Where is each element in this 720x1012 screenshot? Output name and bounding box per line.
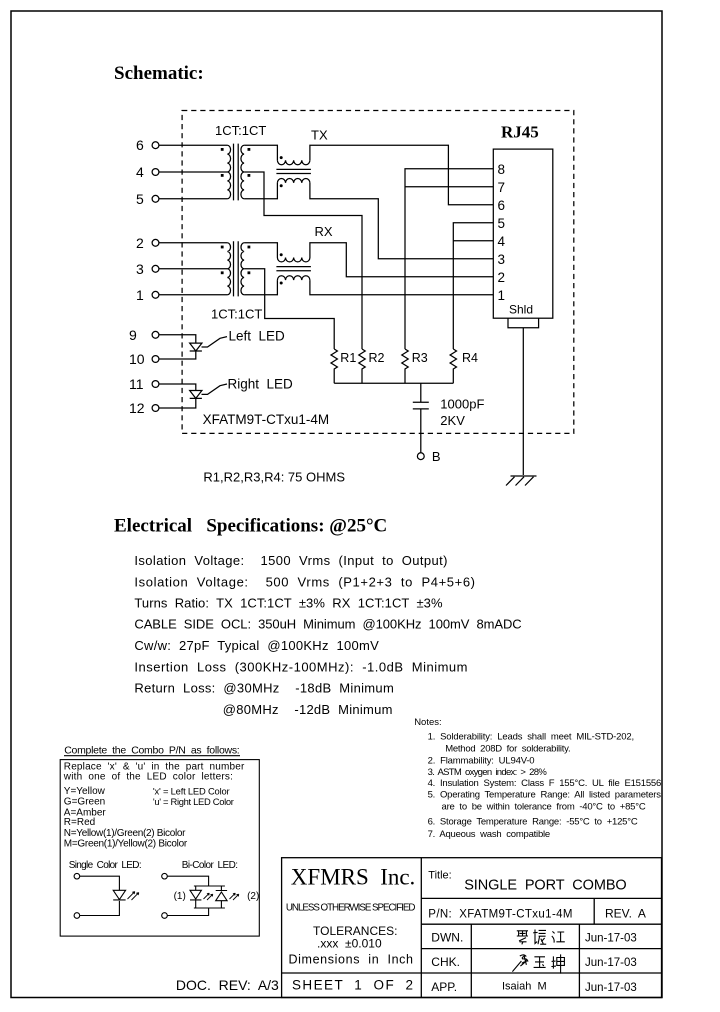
svg-text:Single Color LED:: Single Color LED: bbox=[69, 860, 142, 871]
svg-text:6: 6 bbox=[136, 137, 144, 153]
svg-text:RX: RX bbox=[315, 224, 333, 239]
wire T2 secondary top to RX choke bbox=[244, 243, 277, 258]
svg-text:Cw/w: 27pF Typical @100KHz: Cw/w: 27pF Typical @100KHz 100mV bbox=[134, 638, 379, 653]
TX choke lower phase dot bbox=[280, 184, 283, 187]
T2 secondary phase dot bbox=[248, 246, 251, 249]
svg-text:4: 4 bbox=[498, 234, 506, 249]
LED right diode bbox=[159, 384, 202, 408]
wire pin2 to T2 primary top bbox=[159, 242, 227, 244]
svg-text:7. Aqueous wash compatible: 7. Aqueous wash compatible bbox=[428, 829, 551, 840]
svg-text:Complete the Combo P/N as: Complete the Combo P/N as follows: bbox=[64, 745, 240, 757]
svg-text:5: 5 bbox=[136, 191, 144, 207]
svg-text:R2: R2 bbox=[369, 351, 385, 365]
wire shield to ground bbox=[522, 328, 524, 475]
svg-text:1: 1 bbox=[136, 287, 144, 303]
svg-text:.xxx ±0.010: .xxx ±0.010 bbox=[317, 937, 382, 951]
svg-text:Dimensions in Inch: Dimensions in Inch bbox=[289, 953, 414, 967]
pin 6 terminal bbox=[152, 142, 159, 149]
bi LED terminal top bbox=[162, 873, 168, 879]
LED right leader line bbox=[202, 384, 228, 394]
chk signature chinese bbox=[512, 954, 564, 973]
svg-text:RJ45: RJ45 bbox=[501, 123, 539, 142]
svg-text:CABLE SIDE OCL: 350uH Mini: CABLE SIDE OCL: 350uH Minimum @100KHz 10… bbox=[134, 617, 521, 632]
wire pin3 to T2 primary tap bbox=[159, 268, 227, 270]
dwn signature chinese bbox=[517, 930, 565, 945]
svg-text:4. Insulation System: Class: 4. Insulation System: Class F 155°C. UL … bbox=[428, 778, 662, 789]
svg-text:N=Yellow(1)/Green(2) Bicolor: N=Yellow(1)/Green(2) Bicolor bbox=[64, 828, 186, 839]
svg-text:R1,R2,R3,R4: 75 OHMS: R1,R2,R3,R4: 75 OHMS bbox=[203, 470, 345, 485]
T2 primary tap phase dot bbox=[221, 271, 224, 274]
svg-text:2KV: 2KV bbox=[440, 413, 465, 428]
resistor R1 bbox=[331, 349, 337, 383]
pin 12 terminal bbox=[152, 405, 159, 412]
svg-text:R3: R3 bbox=[412, 351, 428, 365]
svg-text:@80MHz -12dB Minimum: @80MHz -12dB Minimum bbox=[223, 702, 393, 717]
single LED diode symbol bbox=[113, 890, 125, 900]
dashed module outline bbox=[182, 111, 574, 434]
T1 primary phase dot bbox=[221, 148, 224, 151]
T1 secondary tap phase dot bbox=[248, 174, 251, 177]
RX choke lower phase dot bbox=[280, 282, 283, 285]
title block main vertical divider bbox=[420, 858, 422, 998]
resistor R2 bbox=[359, 349, 365, 383]
svg-text:Bi-Color LED:: Bi-Color LED: bbox=[182, 860, 238, 871]
T1 secondary phase dot bbox=[248, 148, 251, 151]
svg-text:Schematic:: Schematic: bbox=[114, 63, 204, 84]
svg-text:R4: R4 bbox=[462, 351, 478, 365]
svg-text:Return Loss: @30MHz -18dB: Return Loss: @30MHz -18dB Minimum bbox=[134, 681, 393, 696]
title block label column divider bbox=[470, 924, 472, 997]
svg-text:3: 3 bbox=[136, 261, 144, 277]
svg-text:1. Solderability: Leads sha: 1. Solderability: Leads shall meet MIL-S… bbox=[428, 732, 635, 743]
title block date column divider bbox=[578, 924, 580, 997]
svg-text:Insertion Loss (300KHz-100MH: Insertion Loss (300KHz-100MHz): -1.0dB M… bbox=[134, 659, 467, 674]
transformer T1 primary winding bbox=[227, 145, 230, 199]
svg-text:3: 3 bbox=[498, 252, 506, 267]
svg-text:(1): (1) bbox=[174, 891, 186, 902]
svg-text:XFMRS Inc.: XFMRS Inc. bbox=[291, 865, 416, 890]
single LED wiring bbox=[80, 876, 120, 915]
pin 4 terminal bbox=[152, 169, 159, 176]
svg-text:Right LED: Right LED bbox=[228, 377, 294, 392]
svg-text:R=Red: R=Red bbox=[64, 817, 95, 828]
svg-text:2: 2 bbox=[498, 270, 506, 285]
wire T1 secondary top to TX choke bbox=[244, 145, 277, 160]
svg-text:9: 9 bbox=[129, 327, 137, 343]
bi LED1 light arrows bbox=[204, 893, 213, 900]
wire T2 secondary bottom to RX choke lower bbox=[244, 280, 277, 295]
TX choke upper phase dot bbox=[280, 156, 283, 159]
svg-text:Method 208D for solderabili: Method 208D for solderability. bbox=[445, 744, 570, 755]
svg-text:APP.: APP. bbox=[431, 980, 457, 994]
title block left column sheet row divider bbox=[282, 972, 422, 974]
LED left diode bbox=[159, 335, 202, 359]
wire TX choke upper out bbox=[310, 145, 493, 205]
svg-text:12: 12 bbox=[129, 400, 145, 416]
svg-text:SINGLE PORT COMBO: SINGLE PORT COMBO bbox=[464, 878, 627, 894]
svg-text:'u' = Right LED Color: 'u' = Right LED Color bbox=[153, 796, 234, 807]
pin 5 terminal bbox=[152, 195, 159, 202]
pin 1 terminal bbox=[152, 291, 159, 298]
svg-text:6: 6 bbox=[498, 198, 506, 213]
capacitor C1 1000pF bbox=[413, 383, 429, 453]
pin 9 terminal bbox=[152, 331, 159, 338]
pin 10 terminal bbox=[152, 356, 159, 363]
bi LED2 light arrows bbox=[230, 893, 239, 900]
RJ45 shield tab bbox=[508, 318, 539, 328]
svg-text:2: 2 bbox=[136, 235, 144, 251]
transformer T1 core bbox=[234, 144, 239, 201]
title block title row divider bbox=[421, 897, 661, 899]
svg-text:Electrical Specifications: @: Electrical Specifications: @25°C bbox=[114, 516, 387, 537]
svg-text:(2): (2) bbox=[247, 891, 259, 902]
RX choke upper phase dot bbox=[280, 253, 283, 256]
svg-text:DOC. REV: A/3: DOC. REV: A/3 bbox=[176, 977, 279, 993]
svg-text:8: 8 bbox=[498, 162, 506, 177]
svg-text:2. Flammability: UL94V-0: 2. Flammability: UL94V-0 bbox=[428, 756, 535, 767]
svg-text:10: 10 bbox=[129, 351, 145, 367]
svg-text:6. Storage Temperature Rang: 6. Storage Temperature Range: -55°C to +… bbox=[428, 817, 638, 828]
svg-text:are to be within tolerance: are to be within tolerance from -40°C to… bbox=[442, 802, 646, 813]
resistor R3 bbox=[402, 349, 408, 383]
svg-text:Notes:: Notes: bbox=[414, 717, 441, 728]
svg-text:R1: R1 bbox=[340, 351, 356, 365]
svg-text:REV. A: REV. A bbox=[605, 907, 646, 921]
wire resistor bus bbox=[334, 382, 453, 384]
wire pin4 to T1 primary tap bbox=[159, 171, 227, 173]
TX choke core bbox=[276, 169, 311, 173]
svg-text:Jun-17-03: Jun-17-03 bbox=[585, 957, 637, 969]
RX choke core bbox=[276, 267, 311, 271]
svg-text:1000pF: 1000pF bbox=[440, 397, 484, 412]
svg-text:CHK.: CHK. bbox=[431, 955, 460, 969]
wire RX choke lower out to RJ45 pin1 bbox=[310, 280, 493, 295]
wire pin5 to T1 primary bottom bbox=[159, 198, 227, 200]
T1 primary tap phase dot bbox=[221, 174, 224, 177]
pin 3 terminal bbox=[152, 265, 159, 272]
svg-text:1CT:1CT: 1CT:1CT bbox=[211, 307, 262, 322]
svg-text:3. ASTM oxygen index: > 2: 3. ASTM oxygen index: > 28% bbox=[428, 767, 548, 778]
title block pn row divider bbox=[421, 923, 661, 925]
title block rev cell divider bbox=[593, 898, 595, 924]
svg-text:G=Green: G=Green bbox=[64, 797, 105, 808]
bi LED terminal bottom bbox=[162, 913, 168, 919]
TEXTS placeholder bbox=[282, 858, 662, 998]
svg-text:11: 11 bbox=[129, 376, 144, 392]
wire T2 secondary center tap to R1 bbox=[244, 269, 334, 349]
wire T1 secondary bottom to TX choke lower bbox=[244, 183, 277, 199]
combo box heading underline bbox=[64, 755, 240, 757]
transformer T2 core bbox=[234, 241, 239, 296]
svg-text:Isaiah M: Isaiah M bbox=[502, 981, 547, 993]
svg-text:XFATM9T-CTxu1-4M: XFATM9T-CTxu1-4M bbox=[203, 412, 330, 427]
title block chk row divider bbox=[421, 972, 661, 974]
wire TX choke lower out to RJ45 pin3 bbox=[310, 183, 493, 259]
svg-text:Title:: Title: bbox=[428, 870, 451, 882]
T2 secondary tap phase dot bbox=[248, 271, 251, 274]
svg-text:4: 4 bbox=[136, 164, 144, 180]
svg-text:Isolation Voltage: 500 Vr: Isolation Voltage: 500 Vrms (P1+2+3 to P… bbox=[134, 574, 475, 589]
svg-text:UNLESS OTHERWISE SPECIFIED: UNLESS OTHERWISE SPECIFIED bbox=[286, 903, 416, 914]
resistor R4 bbox=[450, 349, 456, 383]
svg-text:DWN.: DWN. bbox=[431, 931, 463, 945]
svg-text:P/N: XFATM9T-CTxu1-4M: P/N: XFATM9T-CTxu1-4M bbox=[428, 909, 572, 921]
pin 11 terminal bbox=[152, 381, 159, 388]
svg-text:SHEET 1 OF 2: SHEET 1 OF 2 bbox=[292, 978, 413, 993]
node B terminal bbox=[417, 453, 424, 460]
title block outline bbox=[282, 858, 662, 998]
wire pin6 to T1 primary top bbox=[159, 144, 227, 146]
wire RX choke upper out to RJ45 pin2 bbox=[310, 243, 493, 277]
svg-text:Isolation Voltage: 1500 V: Isolation Voltage: 1500 Vrms (Input to O… bbox=[134, 553, 447, 568]
svg-text:5. Operating Temperature Ra: 5. Operating Temperature Range: All list… bbox=[428, 790, 662, 801]
RJ45 connector box bbox=[493, 149, 553, 318]
svg-text:Shld: Shld bbox=[509, 303, 533, 317]
wire T1 secondary center tap to R2 bbox=[244, 172, 362, 349]
title block dwn row divider bbox=[421, 948, 661, 950]
bi LED diode 2 symbol bbox=[216, 891, 227, 901]
bi LED diode 1 symbol bbox=[190, 890, 201, 900]
RX choke lower winding bbox=[277, 276, 310, 280]
svg-text:M=Green(1)/Yellow(2) Bicolor: M=Green(1)/Yellow(2) Bicolor bbox=[64, 838, 188, 849]
combo box outline bbox=[60, 760, 259, 937]
ground symbol bbox=[506, 476, 537, 486]
transformer T1 secondary winding bbox=[241, 145, 244, 199]
svg-text:1: 1 bbox=[498, 288, 506, 303]
LED left leader line bbox=[202, 337, 228, 347]
svg-text:Left LED: Left LED bbox=[229, 329, 286, 344]
wire pin1 to T2 primary bottom bbox=[159, 294, 227, 296]
bi LED wiring bbox=[167, 876, 225, 915]
svg-text:Jun-17-03: Jun-17-03 bbox=[585, 982, 637, 994]
svg-text:B: B bbox=[432, 449, 441, 464]
single LED terminal top bbox=[74, 873, 80, 879]
svg-text:Jun-17-03: Jun-17-03 bbox=[585, 933, 637, 945]
transformer T2 secondary winding bbox=[241, 243, 244, 295]
TX choke upper winding bbox=[277, 160, 310, 164]
svg-text:TX: TX bbox=[311, 128, 328, 143]
svg-text:1CT:1CT: 1CT:1CT bbox=[215, 123, 266, 138]
pin 2 terminal bbox=[152, 239, 159, 246]
wire RJ45 pins 4-5 junction to R4 bbox=[453, 223, 493, 349]
single LED terminal bottom bbox=[74, 913, 80, 919]
transformer T2 primary winding bbox=[227, 243, 230, 295]
TX choke lower winding bbox=[277, 178, 310, 182]
single LED light arrows bbox=[128, 892, 139, 900]
RX choke upper winding bbox=[277, 258, 310, 262]
T2 primary phase dot bbox=[221, 246, 224, 249]
svg-text:5: 5 bbox=[498, 216, 506, 231]
svg-text:Turns Ratio: TX 1CT:1CT ±3: Turns Ratio: TX 1CT:1CT ±3% RX 1CT:1CT ±… bbox=[134, 596, 443, 611]
svg-text:7: 7 bbox=[498, 180, 506, 195]
svg-text:with one of the LED color: with one of the LED color letters: bbox=[63, 772, 233, 783]
wire RJ45 pins 7-8 junction to R3 bbox=[405, 169, 493, 349]
